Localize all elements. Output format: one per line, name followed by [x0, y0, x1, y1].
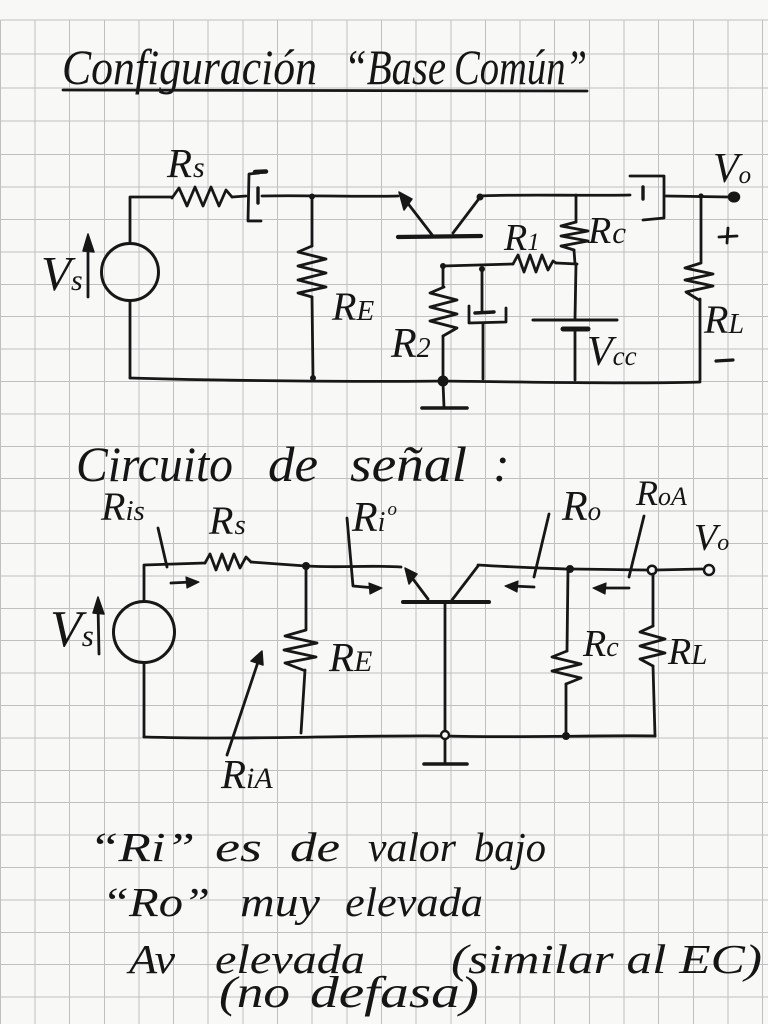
arrow Vs2 polarity [98, 605, 99, 654]
transistor Q2 base bar [403, 600, 489, 604]
svg-text:“Ro”muyelevada: “Ro”muyelevada [102, 879, 483, 925]
label RE [331, 284, 374, 329]
node RE bottom dot [310, 375, 316, 381]
label RiA [220, 751, 273, 797]
transistor Q1 collector [453, 196, 481, 233]
wire battery to bottom [574, 331, 577, 380]
pointer arrow RiA [227, 662, 258, 755]
title text "Configuración Base Común" [62, 39, 587, 95]
label Ro [561, 484, 601, 530]
arrow Ri (right) [369, 583, 382, 594]
label R1 [503, 217, 540, 259]
wire Rs to input cap [232, 196, 246, 197]
wire collector to RC2 [478, 565, 566, 569]
note line 2 [102, 879, 483, 925]
title underline [63, 90, 587, 91]
source Vs circle [102, 244, 159, 301]
wire RL2 node to Vo terminal [656, 569, 702, 570]
wire: top-left corner from Vs to Rs [130, 197, 172, 243]
capacitor C1 (input coupling, bracket with arrow) [248, 173, 261, 221]
ground 2 [444, 740, 447, 762]
wire bottom rail [130, 378, 700, 383]
label RoA [635, 473, 687, 513]
resistor Rs2 (zigzag) [205, 554, 251, 570]
svg-text:“BaseComún”: “BaseComún” [344, 39, 587, 95]
label Rs2 [208, 498, 246, 543]
transistor Q2 emitter arrow [410, 575, 428, 599]
label Vs [41, 246, 83, 301]
wire node to emitter [306, 566, 401, 567]
label RE2 [328, 634, 372, 680]
heading "Circuito de señal :" [76, 436, 510, 492]
resistor RC (coil) [561, 222, 588, 250]
node RL2 top (open circle) [648, 566, 657, 575]
label Ri [351, 495, 397, 541]
wire Vs2 bottom [143, 663, 146, 737]
wire: RC branch from top wire [575, 195, 578, 222]
resistor RL2 (coil) + wires [652, 574, 655, 626]
wire bottom rail 2 [144, 736, 655, 738]
capacitor C2 (bypass) wire + plate + cup [481, 269, 484, 311]
node RC2 bottom dot [562, 732, 570, 740]
svg-text:“Ri”esdevalorbajo: “Ri”esdevalorbajo [89, 824, 546, 870]
pointer line Ri [347, 518, 375, 588]
resistor RC2 (coil) + wires [567, 569, 568, 651]
node RC2 top dot [566, 565, 574, 573]
battery Vcc plate short [563, 327, 588, 332]
wire R1 to RC bottom [556, 263, 577, 264]
node cap junction dot [479, 266, 485, 272]
node at RE top (junction dot) [309, 194, 315, 200]
terminal Vo2 (open circle) [704, 565, 714, 575]
node base junction dot [440, 263, 446, 269]
wire RC to R1 junction [574, 250, 575, 264]
node RE2 top dot [302, 562, 310, 570]
wire Rs2 to RE node [251, 562, 306, 566]
label Ris [100, 484, 145, 529]
transistor Q1 emitter arrow [406, 201, 433, 236]
resistor RL (coil) + wires [700, 197, 703, 262]
wire RC junction down to battery [575, 264, 576, 319]
resistor Rs (zigzag) [172, 187, 232, 206]
label + [727, 228, 728, 243]
label Rc [587, 210, 626, 252]
svg-text:Configuración: Configuración [62, 39, 317, 95]
note line 1 [89, 824, 546, 870]
resistor RE (coil) + wires [311, 196, 314, 246]
label minus [716, 360, 733, 361]
battery Vcc plate long [533, 319, 617, 322]
arrow Ro (left) [512, 586, 534, 587]
source Vs2 circle [114, 602, 175, 663]
note line 4 [219, 968, 479, 1017]
svg-text:Rc: Rc [587, 210, 626, 252]
label Vo2 [694, 517, 729, 559]
svg-text:(nodefasa): (nodefasa) [219, 968, 479, 1017]
pointer line RoA [629, 516, 644, 577]
resistor R1 (zigzag) [513, 255, 556, 272]
wire top-left corner circuit 2 [144, 563, 205, 601]
label Vcc [587, 329, 637, 375]
label Vs2 [50, 601, 94, 658]
wire RC2 node to RL2 node [573, 569, 647, 570]
transistor Q2 collector [452, 566, 478, 600]
wire cap to Vo [666, 196, 729, 197]
wire: collector to output cap [479, 195, 630, 196]
svg-text:Circuitodeseñal:: Circuitodeseñal: [76, 436, 510, 492]
label RL [703, 297, 744, 342]
label Rs [166, 140, 205, 186]
wire base node to R1 [443, 264, 513, 266]
pointer line Ris [158, 528, 167, 567]
label RL2 [667, 631, 707, 673]
transistor Q1 base bar [398, 236, 481, 237]
arrow Ris (right) [171, 582, 192, 583]
node base2 (open circle on rail) [441, 731, 449, 739]
resistor R2 (coil) + wires [442, 266, 445, 287]
terminal Vo dot [729, 192, 740, 202]
ground symbol [443, 383, 444, 407]
wire cap to emitter node [262, 194, 398, 197]
note line 3 [126, 936, 762, 982]
arrow RoA (left) [600, 587, 629, 590]
pointer line Ro [534, 514, 549, 577]
label Rc2 [582, 623, 619, 665]
label R2 [390, 321, 431, 367]
capacitor C3 (output coupling bracket) [630, 176, 664, 220]
transistor Q2 base wire down [444, 602, 447, 730]
arrow Vs polarity [87, 243, 90, 297]
node ground junction big dot [438, 376, 449, 387]
label Vo [713, 146, 751, 192]
wire Vs bottom [129, 301, 132, 378]
resistor RE2 (coil) + wires [305, 566, 308, 629]
